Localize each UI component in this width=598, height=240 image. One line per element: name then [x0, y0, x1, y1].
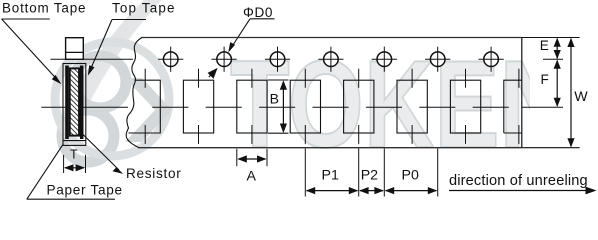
svg-text:Resistor: Resistor — [126, 166, 181, 181]
watermark ring upper — [74, 56, 126, 108]
svg-text:ΦD0: ΦD0 — [243, 5, 273, 20]
watermark ring lower — [62, 110, 114, 162]
T dim arrow — [64, 164, 85, 171]
A dim tick right — [266, 149, 268, 166]
svg-text:E: E — [540, 38, 549, 53]
A dim tick left — [236, 149, 238, 166]
tape bottom edge — [138, 147, 522, 149]
pocket centerline segment gap4-5 — [313, 106, 349, 108]
leader arrow PhiD0 — [228, 19, 250, 53]
pocket 7 — [450, 69, 480, 144]
pocket 1 (partial at torn edge) — [129, 69, 161, 144]
W dim arrow — [567, 38, 574, 148]
sprocket hole 2 — [212, 47, 237, 72]
svg-text:P2: P2 — [361, 168, 378, 184]
sprocket hole 5 — [372, 47, 397, 72]
svg-text:Paper Tape: Paper Tape — [47, 182, 123, 197]
leader arrow Top Tape — [88, 20, 112, 76]
side view: tab inner line — [66, 51, 84, 53]
T dim tick left — [63, 155, 65, 173]
P0 dim arrow — [385, 187, 438, 194]
P ext line hole6 center — [437, 149, 439, 197]
P1 dim arrow — [306, 187, 359, 194]
right ext: tape top — [522, 37, 580, 39]
svg-text:Top Tape: Top Tape — [112, 1, 176, 16]
tape right edge — [521, 38, 523, 148]
leader underline Bottom Tape — [2, 18, 50, 20]
sprocket hole 4 — [318, 47, 343, 72]
right ext: sprocket line — [543, 58, 563, 60]
side view: bottom tape outer rect — [63, 64, 86, 146]
unreeling arrow — [449, 187, 597, 195]
watermark chevron logo — [125, 78, 172, 142]
leader underline Top Tape — [112, 19, 146, 21]
svg-text:W: W — [574, 89, 588, 105]
sprocket hole 7 — [479, 47, 504, 72]
E dim arrow — [554, 38, 561, 59]
small arrow at sprocket hole 2 — [208, 68, 218, 79]
F dim arrow — [554, 60, 561, 107]
pocket 5 — [344, 69, 374, 144]
side view: line1 sprocket-level line — [51, 58, 134, 60]
svg-text:Bottom Tape: Bottom Tape — [2, 1, 86, 16]
leader underline PhiD0 — [250, 18, 275, 20]
resistor (hatched) — [70, 68, 79, 135]
svg-text:P0: P0 — [402, 168, 419, 184]
sprocket hole 3 — [265, 47, 290, 72]
pocket centerline segment gap5-6 — [366, 106, 402, 108]
tape top edge — [141, 37, 522, 39]
B dim arrow — [280, 80, 287, 133]
P2 dim arrow — [359, 187, 384, 194]
pocket centerline segment gap6-7 — [419, 106, 455, 108]
svg-text:direction of unreeling: direction of unreeling — [449, 173, 588, 189]
pocket 6 — [397, 69, 427, 144]
pocket 3 — [237, 69, 267, 144]
svg-text:F: F — [541, 72, 549, 87]
sprocket hole 1 — [158, 47, 183, 72]
pocket 4 — [290, 69, 320, 144]
P ext line hole5 center — [383, 149, 385, 197]
sprocket hole 6 — [425, 47, 450, 72]
svg-text:T: T — [70, 148, 78, 162]
right ext: tape bottom — [522, 147, 580, 149]
leader arrow Resistor — [82, 134, 123, 174]
P ext line pocket5 center — [358, 149, 360, 197]
watermark big ring — [55, 42, 169, 156]
tape torn left edge — [126, 38, 142, 148]
pocket centerline segment gap3-4 — [259, 106, 295, 108]
pocket centerline segment gap2-3 — [206, 106, 242, 108]
watermark swoosh band top-left — [60, 0, 162, 126]
svg-text:B: B — [270, 90, 279, 106]
side view: bottom inner line — [63, 140, 86, 142]
pocket 8 (partial at right edge) — [504, 69, 522, 144]
right ext: pocket line — [522, 106, 563, 108]
B dim extension bottom — [268, 132, 289, 134]
leader arrow Bottom Tape — [2, 19, 62, 84]
leader underline Paper Tape — [27, 198, 115, 200]
B dim extension top — [268, 79, 289, 81]
pocket centerline segment gap1-2 — [152, 106, 188, 108]
svg-text:P1: P1 — [322, 168, 339, 184]
leader line Paper Tape — [27, 145, 63, 200]
A dim arrow — [237, 155, 266, 162]
T dim tick right — [85, 155, 87, 173]
side view: left wall bar — [65, 66, 69, 140]
side view: top tape tab — [66, 38, 84, 60]
svg-text:A: A — [247, 169, 257, 185]
pocket centerline segment gap7-8 — [473, 106, 509, 108]
side view: right wall bar — [80, 66, 84, 140]
side view: line2 pocket-level line — [41, 106, 128, 108]
pocket 2 — [183, 69, 213, 144]
P ext line pocket4 center — [304, 149, 306, 197]
